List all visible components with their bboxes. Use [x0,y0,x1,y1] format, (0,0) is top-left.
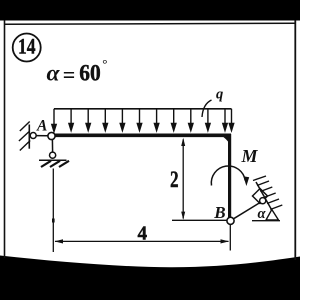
dim2 arrow up [181,138,185,146]
circled number 14 [13,34,41,62]
extension line below B [229,225,231,251]
dim2 arrow down [181,212,185,220]
tick on extension line [52,219,55,223]
top black page edge [0,0,300,21]
frame left line [4,20,6,258]
distributed load q : top line [54,108,232,110]
svg-text:α: α [47,61,61,87]
wall at A (left), hatched [28,125,30,149]
svg-text:α: α [258,206,267,222]
frame top line [5,23,296,24]
vertical link rod below A [51,140,53,153]
dim4 arrow left [55,239,64,243]
ground line below A [39,159,67,161]
svg-text:q: q [216,87,223,103]
svg-text:60: 60 [79,61,101,86]
extension line below A [52,169,54,253]
svg-text:B: B [213,203,225,222]
svg-text:=: = [63,62,76,87]
svg-text:4: 4 [138,222,148,244]
ground hatches below A [41,161,69,167]
svg-text:°: ° [102,56,107,71]
dimension 2 vertical line [182,140,184,219]
horizontal link rod at A [36,135,48,137]
pin circle at B [227,217,234,224]
beam AB horizontal [52,134,232,138]
corner fillet [224,137,229,143]
inclined wall hatches [253,176,282,210]
pin circle below A [50,152,56,158]
extension line at B level [172,219,227,221]
moment M arc [211,166,245,186]
moment M arrowhead [243,176,249,186]
svg-text:A: A [36,117,47,134]
pin circle on slider [260,198,266,204]
pin circle at A [48,132,55,139]
inclined rod at B [234,201,263,219]
svg-text:14: 14 [18,33,36,58]
frame right line [294,20,296,260]
inclined wall line [256,182,272,211]
svg-text:M: M [241,146,259,166]
ground line at incline [252,220,280,222]
distributed load arrows [52,109,234,132]
dimension 4 horizontal line [55,240,229,242]
pin circle at wall [30,133,36,139]
slider block (rotated square) [253,189,268,204]
dim4 arrow right [221,239,230,243]
triangle under incline [266,210,279,221]
bottom black page edge [0,256,300,300]
svg-text:2: 2 [170,167,179,192]
column (vertical member) [228,134,231,218]
